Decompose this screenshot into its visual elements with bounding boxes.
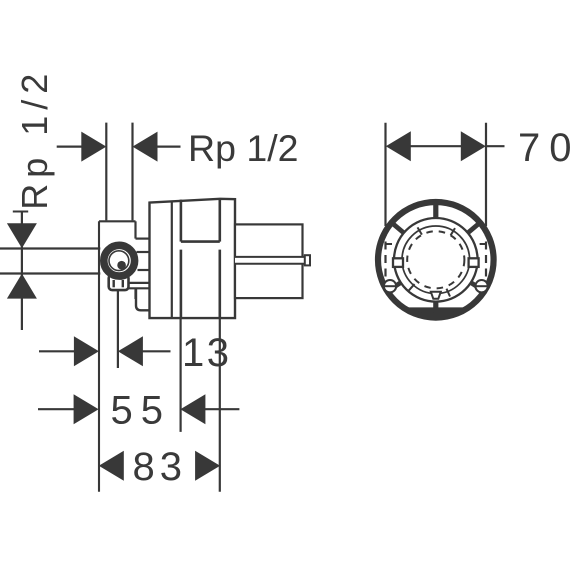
connector step line 5 bbox=[128, 287, 151, 289]
wire: 55 dimension line right tail bbox=[204, 408, 239, 410]
svg-text:83: 83 bbox=[133, 445, 188, 489]
safety clip below spindle bbox=[109, 275, 129, 291]
spline tick lower-left bbox=[408, 284, 414, 291]
connector step line 2 bbox=[137, 251, 151, 253]
outer mounting ring (front view) bbox=[378, 202, 494, 318]
mounting lug below body left bbox=[136, 289, 151, 311]
arrow: 13 right arrowhead (left) bbox=[118, 336, 143, 366]
spindle shaft white fill bbox=[235, 257, 310, 264]
spline tick upper-left bbox=[418, 227, 422, 234]
wire: 83 right extension line bbox=[219, 318, 221, 492]
slot edge mark west lower bbox=[386, 284, 392, 286]
arrow: top dimension left arrowhead (right) bbox=[81, 132, 106, 162]
arrow: 13 left arrowhead (right) bbox=[74, 336, 99, 366]
wall plate top edge bbox=[99, 220, 136, 222]
spoke north-west bbox=[393, 224, 405, 234]
spoke south bbox=[433, 300, 438, 313]
retaining clip east bbox=[469, 258, 479, 267]
arrow: 70 right arrowhead (right) bbox=[461, 131, 486, 161]
spoke south-west bbox=[391, 282, 402, 289]
wire: left inlet pipe lower feature line bbox=[0, 272, 100, 274]
wire: top extension line left bbox=[105, 123, 107, 221]
wire: 70 extension line left bbox=[384, 123, 386, 226]
svg-text:Rp 1/2: Rp 1/2 bbox=[14, 68, 55, 210]
connector step line 1 (plate to body) bbox=[136, 238, 151, 240]
spoke north bbox=[433, 203, 438, 220]
svg-text:13: 13 bbox=[182, 331, 232, 375]
spindle end cap bbox=[305, 255, 310, 265]
safety clip slot left bbox=[112, 280, 114, 287]
connector step line 4 bbox=[128, 282, 151, 284]
valve body outline (side view) bbox=[150, 199, 236, 318]
svg-text:70: 70 bbox=[518, 126, 570, 170]
retaining clip west bbox=[393, 258, 403, 267]
spindle shaft top line bbox=[235, 256, 310, 258]
wire: left inlet pipe upper feature line bbox=[0, 247, 100, 249]
screw lower-right slot bbox=[475, 285, 487, 287]
spline tick lower-right bbox=[447, 289, 451, 297]
cartridge right edge upper bbox=[219, 199, 222, 242]
wire: top extension line right bbox=[131, 123, 133, 221]
spindle shaft bottom line bbox=[235, 263, 310, 265]
valve spindle ring (side view) bbox=[104, 245, 135, 276]
wire: 70 dimension line right tail bbox=[486, 145, 505, 147]
spline tick upper-right bbox=[451, 228, 455, 235]
hidden flat left (dashed) bbox=[384, 228, 386, 295]
cartridge second circle bbox=[402, 226, 470, 294]
wire: left vertical dimension line bbox=[21, 212, 23, 331]
wire: 13 dimension line left segment bbox=[39, 350, 75, 352]
screw lower-right bbox=[475, 280, 487, 292]
cartridge left edge upper bbox=[180, 200, 183, 242]
valve spindle inner circle bbox=[109, 251, 129, 271]
arrow: 55 right arrowhead (left) bbox=[180, 394, 205, 424]
slot edge mark west upper bbox=[386, 243, 392, 245]
arrow: left dimension upper arrowhead (down) bbox=[7, 223, 37, 248]
screw lower-left slot bbox=[384, 285, 396, 287]
svg-text:55: 55 bbox=[111, 389, 172, 433]
arrow: 83 right arrowhead (right) bbox=[195, 451, 220, 481]
wire: top dimension line left segment bbox=[57, 146, 83, 148]
slot edge mark east upper bbox=[480, 243, 486, 245]
body internal joint line bbox=[171, 201, 173, 318]
valve spindle set-screw dot bbox=[117, 261, 126, 270]
slot edge mark east lower bbox=[480, 284, 486, 286]
arrow: 70 left arrowhead (left) bbox=[386, 131, 411, 161]
screw lower-left bbox=[384, 280, 396, 292]
hidden flat right (dashed) bbox=[485, 228, 487, 295]
wire: 70 extension line right bbox=[485, 123, 487, 226]
cartridge outer circle (front view) bbox=[394, 218, 478, 302]
arrow: top dimension right arrowhead (left) bbox=[133, 132, 158, 162]
wall plate left edge and 83/55/13 left extension line bbox=[98, 221, 100, 492]
wire: 55 dimension line left segment bbox=[38, 408, 75, 410]
spoke south-east bbox=[469, 282, 480, 289]
keyway notch bottom bbox=[431, 292, 441, 299]
spoke north-east bbox=[466, 224, 478, 234]
safety clip slot right bbox=[122, 280, 124, 287]
wall plate right edge upper part bbox=[134, 221, 136, 238]
tick: end mark of left vertical dimension line bbox=[13, 211, 28, 213]
wire: 13 dimension line right tail bbox=[142, 350, 171, 352]
cartridge left edge lower bbox=[180, 250, 183, 319]
wire: top dimension line right tail bbox=[157, 146, 181, 148]
bottom dark segment of mounting ring bbox=[399, 307, 472, 319]
rear housing (side view) bbox=[235, 224, 303, 298]
arrow: 83 left arrowhead (left) bbox=[99, 451, 124, 481]
arrow: 55 left arrowhead (right) bbox=[74, 394, 99, 424]
wire: 55 right extension line bbox=[180, 319, 182, 432]
hidden spline circle (dashed) bbox=[407, 231, 464, 288]
svg-text:Rp 1/2: Rp 1/2 bbox=[188, 127, 299, 169]
wire: 70 dimension line middle segment bbox=[410, 145, 462, 147]
arrow: left dimension lower arrowhead (up) bbox=[7, 274, 37, 299]
wire: 13 right extension line bbox=[117, 290, 119, 368]
wall plate right edge lower part bbox=[134, 289, 136, 299]
cartridge right edge lower bbox=[219, 250, 222, 319]
cartridge cross line bbox=[181, 240, 220, 243]
connector step line 3 bbox=[138, 269, 151, 271]
